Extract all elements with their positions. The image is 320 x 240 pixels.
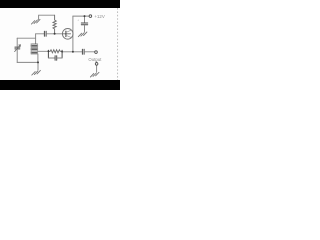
wire: tank top vertical (cap node down to coil top) (35, 34, 37, 44)
wire: bypass cap bottom lead (84, 25, 86, 31)
capacitor C2 plates (55, 56, 57, 61)
svg-text:+: + (77, 18, 79, 22)
schematic background (0, 0, 120, 90)
transistor Q1 emitter stroke (66, 35, 72, 37)
wire: variable cap top lead (16, 38, 18, 46)
wire: output cap to terminal (85, 51, 95, 53)
resistor R1 (vertical zigzag) (53, 15, 56, 34)
collector/emitter vertical line (72, 16, 74, 52)
resistor R2 (horizontal zigzag) (48, 50, 62, 53)
bottom letterbox bar (0, 80, 120, 90)
node bar left of RC network (47, 50, 49, 58)
terminal Output circle (95, 51, 98, 54)
capacitor C1 plates (44, 31, 46, 36)
transistor Q1 collector stroke (66, 30, 72, 32)
wire: lower terminal stub (96, 62, 98, 63)
ground G1 (top-left chassis) (31, 19, 40, 24)
wire: bottom-left wire to ground junction (17, 61, 38, 63)
wire: lower terminal to ground (96, 65, 98, 72)
transformer T1 (coil block) (31, 44, 38, 54)
ground G2 (bottom-left chassis) (32, 70, 41, 75)
wire: base wire right segment to transistor (47, 33, 63, 35)
variable capacitor VC1 arrow (15, 45, 21, 52)
capacitor C3 plates (output coupling) (82, 49, 84, 54)
junction node on +12V rail (84, 15, 86, 17)
junction node bottom-left ground (37, 61, 39, 63)
wire: ground stub below junction (37, 62, 39, 70)
transistor Q1 base lead inside (63, 33, 71, 35)
wire: +12V rail (73, 15, 89, 17)
junction node RC right (61, 51, 63, 53)
svg-text:+12V: +12V (94, 14, 104, 19)
wire: top-left rail from ground to R1 (39, 15, 55, 19)
node bar right of RC network (61, 50, 63, 58)
junction node emitter (72, 51, 74, 53)
ground G3 (output terminal chassis) (90, 72, 99, 77)
wire: emitter row from RC to output cap (62, 51, 82, 53)
wire: variable cap top wire (17, 37, 35, 39)
junction node RC left (48, 50, 50, 52)
transistor Q1 circle (62, 29, 73, 40)
wire: bypass cap top lead (84, 16, 86, 22)
wire: base wire left segment to capacitor C1 (36, 33, 44, 35)
transistor Q1 base bar (65, 31, 67, 36)
junction node on base wire (54, 33, 56, 35)
terminal +12V circle (89, 15, 92, 18)
wire: coil secondary to RC network (38, 50, 49, 52)
terminal lower circle (95, 63, 98, 66)
wire: variable cap bottom lead (16, 49, 18, 62)
capacitor C4 plates (bypass) (81, 23, 87, 25)
top letterbox bar (0, 0, 120, 8)
wire: coil bottom drop to ground junction (37, 54, 39, 62)
ground G4 (bypass cap chassis) (78, 32, 87, 37)
svg-text:Output: Output (88, 57, 102, 62)
variable capacitor VC1 plates (15, 47, 20, 49)
wire: RC bottom branch right (57, 57, 62, 59)
wire: RC bottom branch left (48, 57, 54, 59)
right frame border (dotted) (117, 8, 119, 80)
